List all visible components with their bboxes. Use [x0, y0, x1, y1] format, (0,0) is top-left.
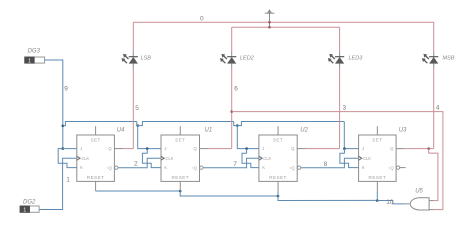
wire net 10 reset chain U1 to U2 [180, 191, 278, 196]
svg-text:CLK: CLK [363, 156, 371, 161]
svg-text:3: 3 [343, 105, 347, 112]
svg-text:~Q: ~Q [289, 165, 295, 170]
wire net 8 U2 ~Q to U3 CLK [301, 158, 359, 168]
svg-text:J: J [164, 146, 166, 151]
LED LED3 [339, 52, 341, 57]
wire net 9 from DG3 to vertical trunk [45, 60, 63, 149]
svg-text:RESET: RESET [369, 175, 387, 180]
svg-text:Q: Q [194, 146, 197, 151]
svg-text:LED3: LED3 [349, 56, 364, 62]
svg-text:~Q: ~Q [191, 165, 197, 170]
svg-text:SET: SET [90, 138, 100, 143]
wire net 9 to U4 J pin [63, 148, 77, 150]
wire net 9 staircase to U4 K pin [58, 149, 77, 168]
svg-text:U5: U5 [415, 189, 423, 195]
junction dot net9 stage3 drop [236, 124, 239, 127]
JK flip-flop U2 [259, 126, 306, 191]
wire net 10 to AND gate output [377, 201, 405, 204]
svg-text:CLK: CLK [165, 156, 173, 161]
svg-text:Q: Q [390, 146, 393, 151]
svg-text:1: 1 [66, 176, 70, 183]
svg-text:~Q: ~Q [106, 165, 112, 170]
wire net 9 drop to U2 J [237, 126, 259, 149]
wire net 10 reset chain U2 to U3 [278, 196, 377, 201]
junction dot net10 at U2 reset [277, 195, 280, 198]
svg-text:1: 1 [28, 58, 31, 64]
JK flip-flop U3 [358, 126, 405, 191]
LED MSB [433, 52, 435, 57]
wire net 1 from DG2 to U4 CLK [39, 158, 77, 209]
svg-text:LED2: LED2 [240, 56, 254, 62]
svg-text:RESET: RESET [87, 175, 105, 180]
svg-text:SET: SET [175, 138, 185, 143]
wire net 10 U2 reset stub link [277, 191, 279, 196]
svg-text:RESET: RESET [269, 175, 287, 180]
wire net 4 staircase to AND gate input a [429, 149, 438, 201]
wire net 9 drop to U3 J [344, 121, 358, 148]
junction dot net4 branch to AND gate [427, 147, 430, 150]
wire net 0 second bus segment (LED2-LED3 tops) [232, 26, 340, 28]
svg-text:U1: U1 [205, 128, 213, 134]
svg-text:0: 0 [200, 16, 204, 23]
wire net 6 U1 Q to LED2 [208, 148, 232, 150]
JK flip-flop U4 [77, 126, 124, 191]
svg-text:K: K [80, 165, 83, 170]
junction dot net9 at U3 J [343, 147, 346, 150]
wire net 4 U3 Q to LED MSB [405, 148, 434, 150]
svg-text:9: 9 [64, 85, 68, 92]
svg-text:LSB: LSB [141, 56, 152, 62]
svg-text:U3: U3 [399, 128, 407, 134]
svg-text:1: 1 [23, 208, 26, 214]
svg-text:K: K [262, 165, 265, 170]
wire net 6 branch to AND gate input b [232, 112, 443, 210]
svg-text:J: J [362, 146, 364, 151]
input connector DG2 [20, 206, 39, 212]
wire net 9 jog up to horizontal distribution line [63, 121, 137, 125]
svg-text:SET: SET [273, 138, 283, 143]
svg-text:4: 4 [436, 105, 440, 112]
junction dot VCC on bus2 [268, 26, 271, 29]
JK flip-flop U1 [161, 126, 208, 191]
wire net 5 U4 Q to LED LSB [123, 148, 133, 150]
svg-text:U4: U4 [117, 128, 125, 134]
wire from bus to LED LED2 anode [231, 27, 233, 51]
svg-text:8: 8 [324, 161, 328, 168]
wire net 7 U1 ~Q to U2 CLK [203, 158, 259, 168]
svg-text:DG2: DG2 [23, 200, 36, 206]
wire net 9 drop to U1 J [138, 126, 161, 149]
svg-text:K: K [362, 165, 365, 170]
junction dot net10 at U1 reset [179, 190, 182, 193]
svg-text:MSB: MSB [443, 56, 455, 62]
svg-text:6: 6 [234, 85, 238, 92]
junction dot VCC on bus1 [268, 21, 271, 24]
junction dot net9 stage2 drop [136, 124, 139, 127]
svg-text:K: K [164, 165, 167, 170]
svg-text:J: J [262, 146, 264, 151]
svg-text:5: 5 [135, 105, 139, 112]
wire net 0 VCC bus (top) [133, 21, 433, 23]
LED LSB [132, 52, 134, 57]
svg-text:RESET: RESET [171, 175, 189, 180]
wire from bus to LED LSB anode [132, 22, 134, 51]
wire net 9 staircase to U3 K pin [340, 149, 359, 168]
junction dot net9 at distribution branch [62, 125, 65, 128]
svg-text:J: J [80, 146, 82, 151]
svg-text:DG3: DG3 [28, 48, 41, 54]
wire net 2 U4 ~Q to U1 CLK [118, 158, 161, 168]
wire net 10 reset chain U4 to U1 [96, 190, 181, 192]
wire net 10 U3 reset stub link [376, 191, 378, 201]
junction dot net6 branch to AND gate [230, 110, 233, 113]
LED LED2 [231, 52, 233, 57]
svg-text:CLK: CLK [81, 156, 89, 161]
junction dot net9 at U4 J [62, 147, 65, 150]
svg-text:Q: Q [108, 146, 111, 151]
svg-text:2: 2 [134, 161, 138, 168]
svg-text:7: 7 [233, 161, 237, 168]
wire net 9 staircase to U1 K pin [142, 149, 161, 168]
wire net 3 U2 Q to LED3 [306, 148, 340, 150]
svg-text:~Q: ~Q [388, 165, 394, 170]
junction dot net9 at U2 J [245, 147, 248, 150]
wire from bus to LED LED3 anode [339, 27, 341, 51]
svg-text:10: 10 [386, 199, 394, 206]
wire from bus to LED MSB anode [433, 22, 435, 51]
wire net 9 staircase to U2 K pin [242, 149, 259, 168]
svg-text:CLK: CLK [263, 156, 271, 161]
junction dot net9 at U1 J [146, 147, 149, 150]
svg-text:Q: Q [291, 146, 294, 151]
svg-text:SET: SET [372, 138, 382, 143]
wire net 9 jog at stage3 drop [234, 121, 345, 125]
input connector DG3 [25, 57, 45, 63]
power VCC supply symbol [265, 12, 275, 14]
wire net 9 jog at stage2 drop [137, 121, 234, 125]
junction dot net10 at U3 reset [376, 199, 379, 202]
AND gate U5 [405, 198, 433, 210]
svg-text:U2: U2 [300, 128, 308, 134]
